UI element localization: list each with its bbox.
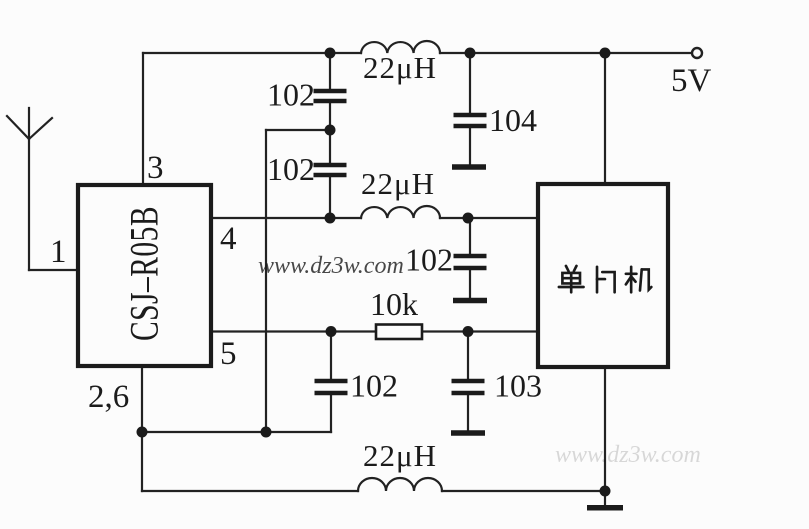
capacitor C2 102 plates [314,165,347,175]
antenna right arm [29,118,52,139]
wire between C1 and C2 [329,103,331,163]
node dot ground return / pin 2,6 [137,427,148,438]
svg-text:102: 102 [267,151,315,187]
wire C6 103 bottom lead [467,395,469,430]
wire C6 103 top lead [467,332,469,380]
svg-text:22μH: 22μH [363,50,437,85]
wire C3 104 bottom lead [469,128,471,164]
node dot top rail / MCU supply [600,48,611,59]
svg-text:www.dz3w.com: www.dz3w.com [258,253,404,279]
node dot ground return / left riser [261,427,272,438]
ground symbol [587,505,623,511]
node dot top rail / C3 104 [465,48,476,59]
wire MCU bottom to ground [604,367,606,505]
node dot top rail / C1 branch [325,48,336,59]
node dot pin4 rail / C2 [325,213,336,224]
svg-text:103: 103 [494,368,542,404]
wire pin 4 rail left segment [211,217,361,219]
wire top rail left segment (pin 3 to L1) [143,52,361,54]
capacitor C1 102 plates [314,91,347,101]
node dot pin5 rail / C6 [463,326,474,337]
inductor L1 22uH (top) [361,41,440,53]
wire C5 102 bottom lead [330,395,332,432]
inductor L2 22uH (middle) [361,206,440,218]
wire C5 102 top lead [330,332,332,380]
wire 5V drop to MCU box [604,53,606,184]
capacitor C3 104 plates [454,115,487,126]
node dot bottom rail / MCU ground [600,486,611,497]
wire C3 104 top lead [469,53,471,113]
svg-text:22μH: 22μH [361,166,435,201]
capacitor C6 103 end bar [451,430,485,436]
svg-text:102: 102 [267,77,315,113]
wire pin 2,6 vertical [141,366,143,491]
wire left riser (x=266) [265,130,267,432]
inductor L3 22uH (bottom) [358,478,442,491]
IC U2 label 单片机 (drawn strokes) [559,266,652,292]
wire pin 5 rail left segment (to resistor) [211,330,376,332]
svg-text:102: 102 [350,368,398,404]
svg-text:4: 4 [220,221,237,257]
capacitor C6 103 plates [452,381,485,393]
wire C4 102 top lead [469,218,471,254]
node dot pin5 rail / C5 [326,326,337,337]
wire pin 4 rail right segment (L2 to MCU) [440,217,538,219]
node dot between C1 and C2 [325,125,336,136]
capacitor C4 102 plates [454,256,487,268]
wire pin 3 vertical [142,53,144,185]
wire top rail right segment (L1 to 5V terminal) [440,52,692,54]
svg-text:www.dz3w.com: www.dz3w.com [555,442,701,468]
wire C2 to pin4 rail [329,177,331,218]
svg-text:102: 102 [405,242,453,278]
svg-text:10k: 10k [370,286,418,322]
wire C4 102 bottom lead [469,270,471,297]
antenna mast [28,108,30,270]
wire bottom rail left segment [142,490,358,492]
capacitor C4 102 end bar [453,298,487,304]
capacitor C5 102 plates [315,381,348,393]
svg-text:5: 5 [220,336,237,372]
antenna left arm [7,116,29,139]
terminal 5V open circle [692,48,702,58]
svg-text:104: 104 [489,102,537,138]
wire ground return horizontal (y=432) [142,431,331,433]
svg-text:CSJ–R05B: CSJ–R05B [121,206,167,341]
wire bottom rail right segment [442,490,605,492]
wire pin 1 [29,269,78,271]
svg-text:2,6: 2,6 [88,379,129,415]
node dot pin4 rail / C4 [463,213,474,224]
IC U2 MCU box [538,184,668,367]
wire node B branch (x=330) top lead [329,53,331,89]
resistor R1 10k body [376,325,422,340]
svg-text:1: 1 [50,234,67,270]
IC U1 CSJ-R05B box [78,185,211,366]
wire pin 5 rail right segment (resistor to MCU) [422,330,538,332]
capacitor C3 104 end bar [452,164,486,170]
wire node B to left riser [266,129,330,131]
svg-text:5V: 5V [671,63,712,99]
svg-text:22μH: 22μH [363,438,437,473]
svg-text:3: 3 [147,150,164,186]
